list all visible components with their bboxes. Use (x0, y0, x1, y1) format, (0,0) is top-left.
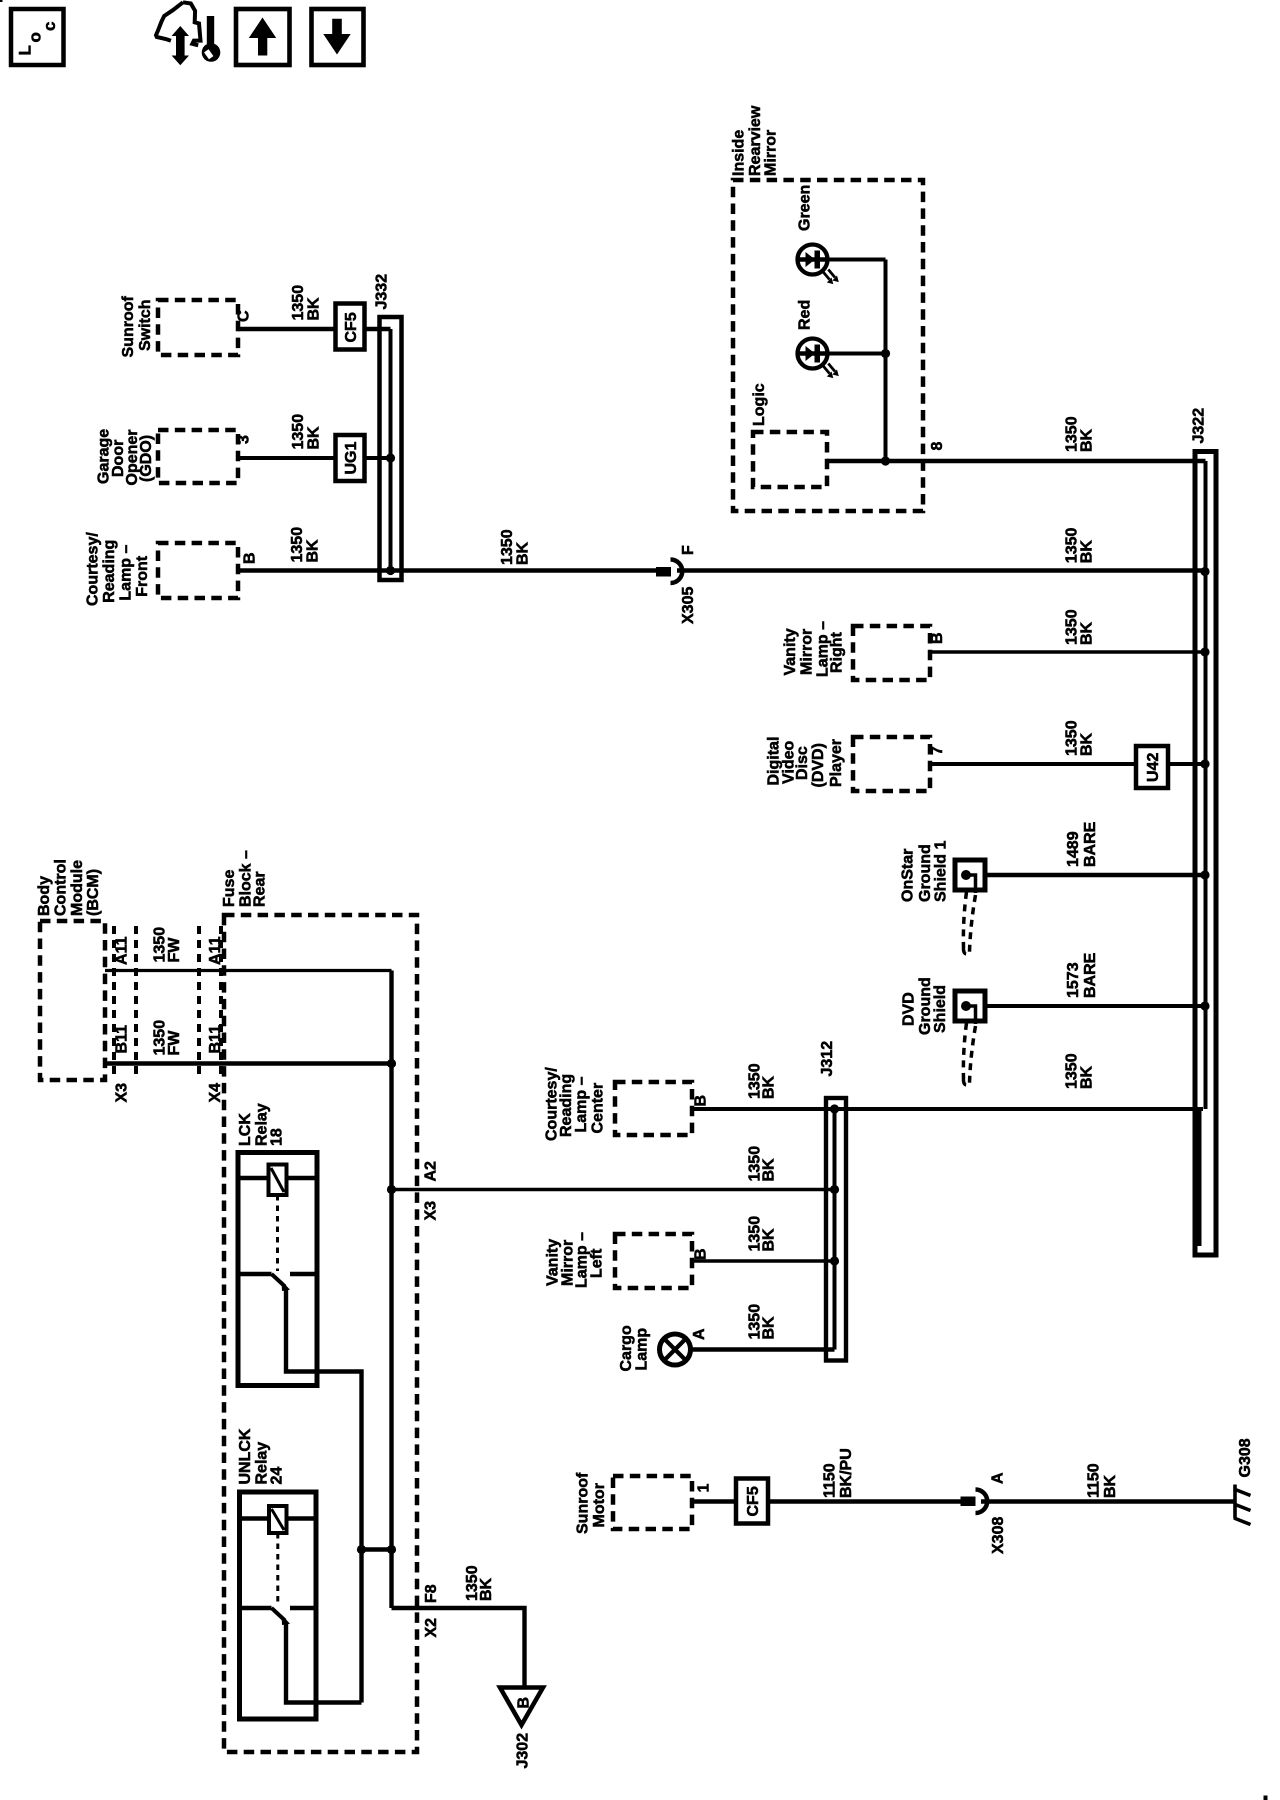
svg-text:8: 8 (929, 442, 946, 451)
svg-text:L: L (16, 45, 35, 55)
wire UG1 to J332 (363, 456, 391, 460)
wire label 1150 BK (1086, 1463, 1120, 1498)
wire label 1350 FW (B11) (152, 1020, 184, 1056)
fuse CF5 (sunroof motor circuit) (736, 1479, 768, 1524)
svg-text:X3: X3 (114, 1083, 131, 1103)
page artifact speck top-left (0, 0, 3, 2)
svg-text:U42: U42 (1145, 753, 1162, 782)
icon LOC box (11, 9, 64, 65)
svg-text:BK: BK (1078, 621, 1095, 645)
svg-text:o: o (26, 32, 45, 42)
svg-text:Mirror: Mirror (799, 629, 816, 675)
svg-text:A11: A11 (114, 936, 131, 965)
wire green LED to node (829, 258, 886, 262)
wire red LED to node (829, 352, 886, 356)
wire label 1350 BK (289, 527, 322, 563)
wire courtesy center through J312 to J322 (692, 1107, 1203, 1111)
svg-text:A: A (990, 1472, 1007, 1484)
svg-text:F: F (680, 545, 697, 555)
wire LCK relay output (286, 1288, 362, 1703)
component Fuse Block - Rear (dashed box) (221, 850, 417, 1752)
svg-text:Logic: Logic (751, 383, 768, 426)
svg-text:BK: BK (1078, 1065, 1095, 1089)
svg-text:(DVD): (DVD) (810, 743, 827, 787)
wire Courtesy lamp front to X305 (238, 568, 658, 573)
wire label 1350 BK (vanity left) (747, 1216, 778, 1252)
svg-text:BK/PU: BK/PU (838, 1448, 855, 1498)
wire label 1350 BK (J322 side) (1064, 528, 1096, 564)
component Garage Door Opener (GDO) (dashed box) (96, 429, 239, 486)
wire cargo lamp to J312 (691, 1347, 835, 1351)
page artifact speck bottom-right (1264, 1796, 1268, 1800)
wire LED node vertical (881, 260, 890, 466)
svg-text:(GDO): (GDO) (138, 435, 155, 482)
wire label 1350 BK (X305 side) (499, 529, 532, 565)
svg-text:X308: X308 (990, 1517, 1007, 1554)
svg-text:B: B (242, 552, 259, 564)
svg-text:Courtesy/: Courtesy/ (85, 532, 102, 606)
icon up-arrow button (236, 9, 290, 65)
svg-text:1: 1 (696, 1484, 713, 1493)
svg-text:1350: 1350 (289, 527, 306, 563)
svg-text:Lamp: Lamp (634, 1328, 651, 1371)
svg-text:1489: 1489 (1065, 831, 1082, 867)
component Body Control Module (BCM) (dashed box) (36, 859, 105, 1080)
svg-text:Lamp –: Lamp – (573, 1076, 590, 1132)
wire relay outputs link (357, 1545, 392, 1554)
component Logic module (dashed box, in mirror) (751, 383, 827, 487)
svg-text:BK: BK (306, 297, 323, 321)
wire label 1350 BK (1064, 609, 1096, 645)
inline connector X308 pin A (961, 1472, 1008, 1554)
ground G308 (1234, 1438, 1254, 1524)
svg-text:A: A (691, 1328, 708, 1340)
svg-text:LCK: LCK (237, 1113, 254, 1146)
svg-text:3: 3 (236, 435, 253, 444)
wire DVD player to U42 (930, 762, 1136, 766)
svg-text:Red: Red (797, 300, 814, 330)
wire Sunroof Switch to CF5 (238, 327, 337, 332)
fuse CF5 (sunroof switch circuit) (336, 304, 365, 350)
wire label 1350 BK (290, 285, 323, 321)
wire GDO to UG1 (238, 456, 337, 460)
svg-text:BK: BK (1078, 428, 1095, 452)
svg-text:Switch: Switch (137, 299, 154, 351)
wire Logic to J322 (827, 459, 1206, 464)
svg-text:BK: BK (1078, 540, 1095, 564)
svg-text:(BCM): (BCM) (85, 869, 102, 916)
relay UNLCK Relay 24 (237, 1428, 316, 1719)
component OnStar Ground Shield 1 (900, 841, 986, 954)
wire X305 to J322 (677, 568, 1205, 573)
svg-text:Lamp –: Lamp – (118, 544, 135, 600)
svg-text:1350: 1350 (290, 285, 307, 321)
svg-text:B: B (693, 1095, 710, 1107)
svg-text:B: B (929, 632, 946, 644)
svg-text:X2: X2 (423, 1618, 440, 1638)
wire DVD shield to J322 (985, 1004, 1205, 1008)
svg-text:OnStar: OnStar (900, 849, 917, 902)
svg-text:BK: BK (306, 426, 323, 450)
svg-text:BK: BK (478, 1577, 495, 1601)
wire UNLCK relay output (286, 1622, 362, 1703)
wire label 1350 BK (courtesy center) (747, 1063, 778, 1099)
wire label 1350 BK (1064, 720, 1096, 756)
wire label 1573 BARE (1065, 952, 1099, 998)
connector X3 of BCM (dashed strip) (114, 926, 137, 1103)
svg-text:Fuse: Fuse (221, 870, 238, 907)
svg-text:Mirror: Mirror (763, 130, 780, 176)
wire OnStar shield to J322 (985, 873, 1205, 878)
svg-text:Shield 1: Shield 1 (933, 841, 950, 902)
svg-text:1150: 1150 (822, 1463, 839, 1498)
svg-text:BK: BK (1102, 1474, 1119, 1498)
svg-text:Rearview: Rearview (747, 105, 764, 176)
wire label 1350 BK (J312 to J322) (1064, 1053, 1096, 1089)
off-page splice J302 pin B (triangle) (500, 1688, 543, 1769)
wire label 1350 BK (A2 wire) (747, 1146, 778, 1182)
component Sunroof Switch (dashed box) (120, 296, 238, 358)
svg-text:Control: Control (52, 859, 69, 916)
svg-text:24: 24 (269, 1467, 286, 1485)
svg-text:Front: Front (134, 555, 151, 597)
svg-text:BK: BK (761, 1316, 778, 1340)
svg-text:Green: Green (797, 185, 814, 231)
svg-text:BARE: BARE (1082, 821, 1099, 867)
component Courtesy/Reading Lamp - Front (dashed box) (85, 532, 239, 606)
component DVD Ground Shield (901, 977, 986, 1085)
svg-text:Rear: Rear (252, 871, 269, 907)
LED Red (in mirror) (797, 300, 839, 378)
component Vanity Mirror Lamp - Left (dashed box) (545, 1232, 693, 1288)
splice pack J332 (374, 274, 402, 580)
wire label 1350 BK (J302 wire) (464, 1565, 495, 1601)
svg-text:CF5: CF5 (745, 1486, 762, 1516)
lamp Cargo Lamp (618, 1325, 691, 1371)
connector X4 of Fuse Block (dashed strip) (199, 926, 224, 1103)
svg-text:A2: A2 (423, 1161, 440, 1182)
svg-text:DVD: DVD (901, 992, 918, 1026)
component Digital Video Disc (DVD) Player (dashed box) (766, 737, 931, 791)
svg-text:Body: Body (36, 876, 53, 916)
LED Green (in mirror) (797, 185, 839, 284)
svg-text:C: C (236, 310, 253, 322)
component Inside Rearview Mirror (dashed box) (731, 105, 924, 511)
svg-text:FW: FW (166, 1030, 183, 1056)
svg-text:1350: 1350 (499, 529, 516, 565)
svg-text:BK: BK (761, 1075, 778, 1099)
wire label 1150 BK/PU (822, 1448, 856, 1498)
svg-text:Vanity: Vanity (782, 628, 799, 675)
svg-text:Module: Module (69, 860, 86, 916)
wire BCM B11 to fuse block (105, 1061, 392, 1065)
wire vanity right to J322 (930, 650, 1205, 654)
svg-text:UG1: UG1 (343, 442, 360, 475)
svg-text:Inside: Inside (731, 130, 748, 176)
svg-text:BK: BK (305, 539, 322, 563)
svg-text:BK: BK (515, 541, 532, 565)
wire label 1350 BK (cargo lamp) (747, 1304, 778, 1340)
svg-text:Ground: Ground (917, 844, 934, 902)
wire label 1489 BARE (1065, 821, 1099, 867)
svg-text:c: c (40, 22, 59, 31)
wire CF5 to X308 (768, 1499, 962, 1503)
svg-text:J332: J332 (374, 274, 391, 310)
svg-text:B11: B11 (114, 1025, 131, 1054)
wire U42 to J322 (1168, 762, 1205, 766)
svg-text:Cargo: Cargo (618, 1325, 635, 1371)
svg-text:B: B (693, 1248, 710, 1260)
svg-text:X305: X305 (680, 587, 697, 624)
svg-text:CF5: CF5 (343, 312, 360, 342)
svg-text:BK: BK (761, 1228, 778, 1252)
svg-text:Shield: Shield (932, 985, 949, 1033)
icon down-arrow button (312, 9, 364, 65)
component Vanity Mirror Lamp - Right (dashed box) (782, 621, 930, 680)
svg-text:J312: J312 (819, 1041, 836, 1077)
splice pack J312 (819, 1041, 846, 1361)
wire label 1350 FW (A11) (152, 927, 184, 963)
wire sunroof motor to CF5 (692, 1499, 737, 1503)
inline connector X305 pin F (656, 545, 697, 624)
svg-text:X3: X3 (423, 1201, 440, 1221)
svg-text:Left: Left (589, 1248, 606, 1278)
svg-text:X4: X4 (207, 1083, 224, 1103)
component Courtesy/Reading Lamp - Center (dashed box) (544, 1067, 693, 1141)
svg-text:FW: FW (166, 937, 183, 963)
relay LCK Relay 18 (237, 1103, 317, 1385)
wire fuse block A2 to J312 (392, 1188, 835, 1191)
wire vanity left to J312 (692, 1259, 835, 1262)
wire X308 to G308 (981, 1499, 1234, 1503)
svg-text:J322: J322 (1191, 408, 1208, 444)
svg-text:J302: J302 (515, 1733, 532, 1769)
wire BCM A11 to fuse block (105, 969, 392, 972)
wire CF5 to J332 (363, 327, 391, 332)
icon shift-with-wrench (156, 2, 220, 65)
svg-text:Disc: Disc (794, 746, 811, 780)
svg-text:18: 18 (269, 1128, 286, 1146)
svg-text:Sunroof: Sunroof (575, 1472, 592, 1534)
svg-text:1350: 1350 (290, 414, 307, 450)
svg-text:Sunroof: Sunroof (120, 296, 137, 358)
svg-text:BK: BK (1078, 732, 1095, 756)
component Sunroof Motor (dashed box) (575, 1472, 693, 1534)
wire fuse block internal vertical (387, 971, 396, 1609)
svg-text:G308: G308 (1237, 1438, 1254, 1477)
splice pack J322 (1191, 408, 1217, 1255)
svg-text:Center: Center (590, 1083, 607, 1134)
svg-text:1150: 1150 (1086, 1463, 1103, 1498)
wire label 1350 BK (mirror ground wire) (1064, 416, 1096, 452)
svg-text:UNLCK: UNLCK (237, 1428, 254, 1484)
wire label 1350 BK (290, 414, 323, 450)
svg-text:A11: A11 (207, 936, 224, 965)
svg-text:B: B (516, 1697, 533, 1709)
wire F8 to J302 splice (392, 1608, 525, 1686)
fuse U42 (1136, 746, 1168, 788)
svg-text:Motor: Motor (591, 1483, 608, 1527)
svg-text:7: 7 (929, 746, 946, 755)
svg-text:Player: Player (828, 739, 845, 787)
svg-text:BK: BK (761, 1158, 778, 1182)
svg-text:B11: B11 (207, 1025, 224, 1054)
svg-text:Right: Right (829, 631, 846, 673)
svg-text:Reading: Reading (101, 540, 118, 603)
svg-text:1573: 1573 (1065, 962, 1082, 998)
fuse UG1 (336, 435, 365, 481)
svg-text:BARE: BARE (1082, 952, 1099, 998)
svg-text:F8: F8 (423, 1584, 440, 1603)
